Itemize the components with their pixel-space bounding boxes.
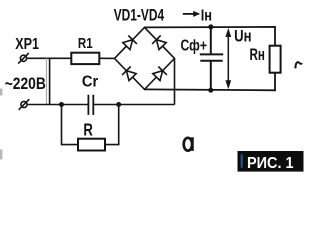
svg-text:Rн: Rн: [250, 45, 265, 64]
node junction right of Cr: [116, 102, 121, 107]
resistor R1: [71, 53, 99, 64]
label ~ (right edge fragment): [295, 62, 302, 68]
capacitor Cr: [88, 95, 93, 115]
node junction top (Сф to rail): [208, 24, 213, 29]
svg-text:VD1-VD4: VD1-VD4: [114, 6, 165, 24]
arrow Iн: [183, 11, 201, 17]
label а (figure part marker): [184, 137, 193, 151]
figure caption РИС. 1: [238, 151, 304, 172]
svg-text:РИС. 1: РИС. 1: [247, 155, 294, 172]
node junction bottom (Сф to rail): [208, 88, 213, 93]
wire vertical pair between input lines (light): [46, 58, 48, 104]
svg-text:XP1: XP1: [15, 36, 39, 53]
wire bottom rail (-): [145, 73, 276, 91]
diode VD1 (top-left arm): [123, 36, 137, 50]
wire Cr to bridge bottom input: [93, 104, 174, 106]
wire bridge right corner down to Cr line: [174, 58, 176, 104]
wire R to right branch up: [105, 105, 119, 145]
svg-text:Сф+: Сф+: [181, 38, 208, 55]
diode VD2 (top-right arm): [152, 36, 166, 50]
svg-text:~220В: ~220В: [5, 74, 46, 93]
resistor R: [78, 139, 105, 151]
scan artifact marks on left edge: [0, 89, 2, 96]
wire top rail (+): [145, 27, 276, 46]
diode VD3 (bottom-left arm): [122, 67, 136, 81]
capacitor Сф: [200, 27, 223, 90]
wire vertical between input lines (dark): [49, 58, 51, 104]
wire left branch down to R: [62, 105, 79, 145]
voltage arrow Uн (double-headed): [225, 28, 231, 89]
bridge diamond wires VD1-VD4: [115, 27, 175, 89]
resistor Rн: [270, 46, 281, 73]
node junction left of Cr: [59, 102, 64, 107]
connector XP1 pin 2: [19, 99, 30, 110]
svg-text:R1: R1: [78, 36, 93, 52]
svg-text:Iн: Iн: [201, 7, 212, 24]
svg-text:Uн: Uн: [234, 28, 251, 46]
diode VD4 (bottom-right arm): [153, 67, 167, 81]
wire R1 to bridge left corner: [99, 57, 114, 59]
svg-text:R: R: [83, 120, 93, 140]
connector XP1 pin 1: [18, 53, 29, 64]
wire pin1 to R1: [27, 57, 71, 59]
wire pin2 to Cr: [27, 104, 88, 106]
svg-text:Cr: Cr: [82, 73, 98, 90]
